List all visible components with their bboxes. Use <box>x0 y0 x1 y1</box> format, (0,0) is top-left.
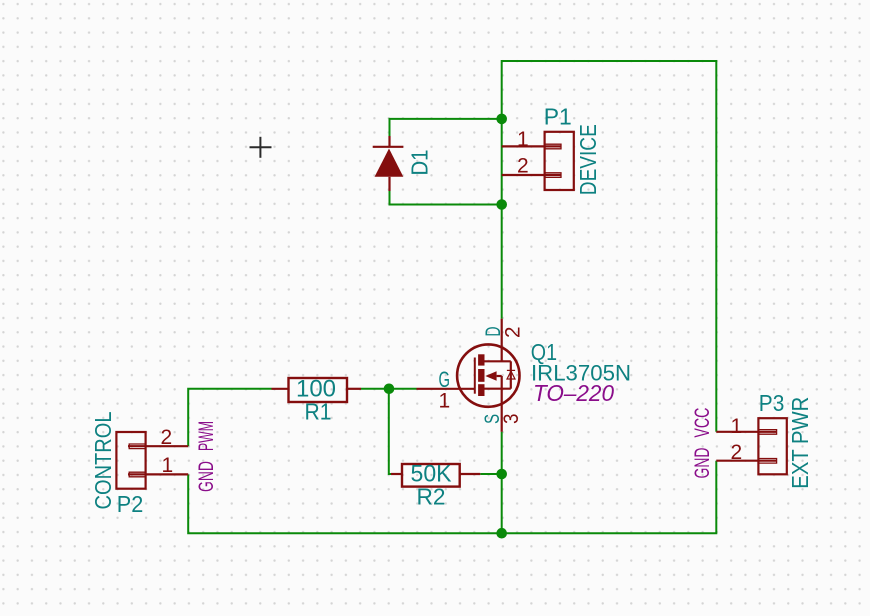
diode D1 <box>373 136 404 191</box>
svg-text:PWM: PWM <box>195 421 218 451</box>
svg-text:2: 2 <box>501 327 524 339</box>
wire R1 to gate junction <box>361 388 417 390</box>
junction at gate node <box>384 384 395 395</box>
svg-text:2: 2 <box>161 426 173 449</box>
resistor R2 <box>391 464 480 487</box>
svg-text:GND: GND <box>691 448 714 479</box>
svg-text:3: 3 <box>500 414 523 425</box>
svg-text:1: 1 <box>162 454 174 477</box>
junction at P1 pin1 node <box>496 114 507 125</box>
svg-text:VCC: VCC <box>691 408 714 438</box>
wire D1 top branch <box>390 119 502 137</box>
wire D1 bottom branch <box>390 191 502 205</box>
svg-text:P3: P3 <box>759 390 785 416</box>
svg-text:G: G <box>439 367 451 392</box>
svg-text:1: 1 <box>439 390 451 413</box>
wire junction to R2 <box>389 389 391 474</box>
svg-text:R1: R1 <box>305 399 332 425</box>
connector P2 <box>116 432 188 489</box>
svg-text:P2: P2 <box>117 491 144 517</box>
svg-text:1: 1 <box>517 128 529 151</box>
wire PWM net P2 pin2 to R1 <box>188 389 271 446</box>
svg-text:P1: P1 <box>544 104 572 130</box>
wire R2 to source column <box>480 473 501 475</box>
svg-text:D1: D1 <box>407 150 433 176</box>
svg-text:TO–220: TO–220 <box>533 380 614 406</box>
svg-text:R2: R2 <box>417 483 446 509</box>
resistor R1 <box>272 378 362 402</box>
transistor Q1 <box>417 319 520 432</box>
svg-text:2: 2 <box>517 155 529 178</box>
junction at bottom rail <box>496 528 507 539</box>
svg-text:1: 1 <box>731 415 743 438</box>
junction at P1 pin2 node <box>496 199 507 210</box>
wire source column <box>501 432 503 533</box>
svg-text:CONTROL: CONTROL <box>90 411 116 509</box>
cursor crosshair <box>250 137 272 158</box>
junction at R2 source node <box>496 469 507 480</box>
wire GND bottom rail <box>188 461 716 534</box>
svg-text:EXT PWR: EXT PWR <box>787 397 813 489</box>
connector P1 <box>502 132 574 190</box>
connector P3 <box>716 418 787 474</box>
wire top rail VCC <box>502 61 717 432</box>
svg-text:2: 2 <box>731 441 743 464</box>
svg-text:GND: GND <box>195 461 218 492</box>
svg-text:DEVICE: DEVICE <box>575 124 601 195</box>
